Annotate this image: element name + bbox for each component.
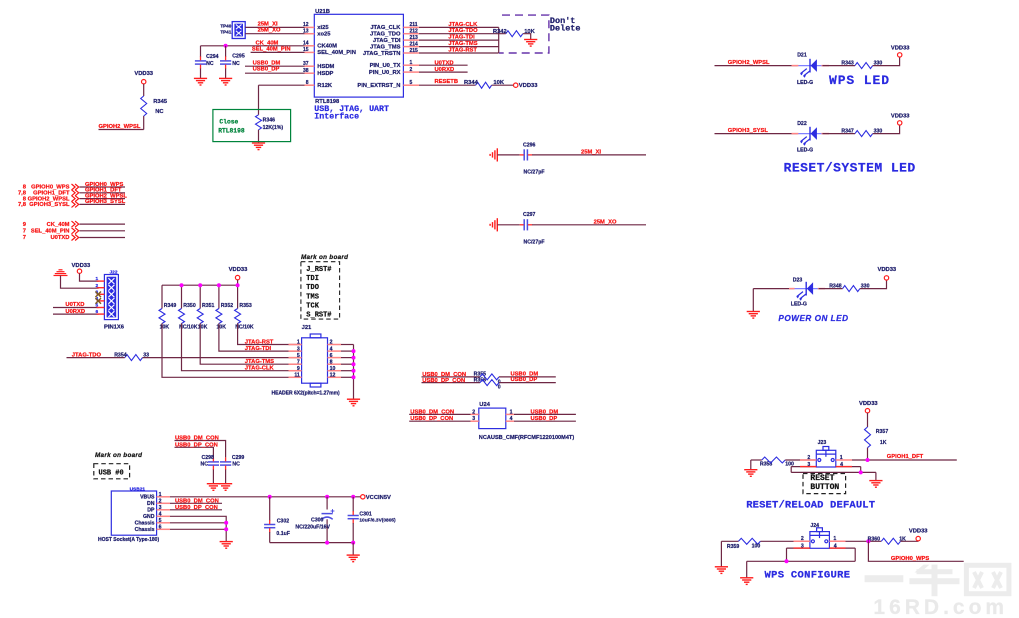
- svg-text:C297: C297: [523, 212, 536, 218]
- svg-text:1: 1: [96, 276, 99, 282]
- ground below R346: [252, 143, 265, 150]
- svg-text:U0RXD: U0RXD: [65, 309, 85, 315]
- wire JTAG-CLK: [419, 26, 499, 28]
- svg-text:VDD33: VDD33: [891, 45, 910, 51]
- svg-text:LED-G: LED-G: [797, 148, 813, 154]
- svg-text:7: 7: [297, 359, 300, 365]
- svg-text:USB0_DP: USB0_DP: [511, 377, 538, 383]
- svg-text:CK_40M: CK_40M: [47, 222, 70, 228]
- svg-text:Mark on board: Mark on board: [301, 254, 348, 261]
- wire R358 to ground: [751, 459, 762, 461]
- svg-text:VDD33: VDD33: [229, 267, 248, 273]
- svg-text:U24: U24: [479, 402, 490, 408]
- svg-text:3: 3: [297, 346, 300, 352]
- svg-text:16RD.com: 16RD.com: [873, 596, 1008, 618]
- svg-text:VBUS: VBUS: [140, 495, 155, 501]
- ground at J24 rail: [740, 578, 753, 585]
- resistor R354 33: [125, 355, 143, 361]
- svg-text:3: 3: [801, 544, 804, 550]
- svg-text:1: 1: [840, 455, 843, 461]
- svg-text:R346: R346: [263, 118, 276, 124]
- svg-text:GPIOH0_WPS: GPIOH0_WPS: [891, 556, 929, 562]
- capacitor C301 10uF: [352, 497, 354, 512]
- svg-text:2: 2: [159, 499, 162, 505]
- wire JTAG-RST: [419, 52, 499, 54]
- jtag vertical bus join: [498, 27, 500, 53]
- power VDD33 at R347: [898, 121, 902, 125]
- svg-text:5: 5: [297, 353, 300, 359]
- wire D23 to R348: [819, 288, 843, 290]
- svg-text:USB0_DM_CON: USB0_DM_CON: [175, 436, 219, 442]
- svg-text:R357: R357: [876, 429, 889, 435]
- svg-text:JTAG-TDI: JTAG-TDI: [245, 346, 272, 352]
- wire chassis pins 5 6: [170, 522, 226, 524]
- svg-text:2: 2: [807, 455, 810, 461]
- svg-text:2: 2: [96, 283, 99, 289]
- svg-text:4: 4: [510, 416, 513, 422]
- wire SEL_40M_PIN net: [251, 51, 305, 53]
- RESET BUTTON dashed box: [803, 474, 846, 494]
- svg-text:xi25: xi25: [317, 25, 329, 31]
- wire JTAG-TDI to J21 pin3: [219, 323, 302, 351]
- svg-text:10K: 10K: [160, 324, 170, 330]
- svg-text:NCAUSB_CMF(RFCMF1220100M4T): NCAUSB_CMF(RFCMF1220100M4T): [479, 435, 575, 441]
- J23 bottom pins 3 4: [791, 466, 816, 468]
- svg-text:1: 1: [159, 492, 162, 498]
- ground below R342: [524, 40, 537, 47]
- wire U0RXD: [419, 71, 468, 73]
- svg-text:9: 9: [297, 366, 300, 372]
- svg-text:7,8: 7,8: [18, 202, 27, 208]
- ground below C295: [219, 78, 232, 85]
- wire USB0_DP from U24 pin4: [514, 420, 576, 422]
- svg-text:D23: D23: [793, 277, 803, 283]
- ground below power led wire: [747, 312, 760, 319]
- wire D22 to R347: [823, 133, 856, 135]
- svg-text:U0RXD: U0RXD: [435, 67, 455, 73]
- ground below C298: [207, 484, 220, 491]
- svg-text:R349: R349: [164, 303, 177, 309]
- power VDD33 at R344: [514, 83, 518, 87]
- svg-text:R345: R345: [153, 99, 168, 105]
- wire GPIOH2_WPSL stub: [99, 129, 144, 131]
- svg-text:0: 0: [498, 385, 501, 391]
- svg-text:RESET: RESET: [810, 474, 834, 483]
- svg-text:xo25: xo25: [317, 32, 331, 38]
- ground left of C297: [490, 218, 497, 231]
- wire pin8 R12K to R346: [259, 84, 305, 86]
- svg-text:R342: R342: [493, 29, 507, 35]
- svg-text:USB0_DM: USB0_DM: [253, 60, 281, 66]
- wire R359 to J24 pin2: [760, 540, 810, 542]
- J24 bottom pins 3 4: [787, 547, 810, 549]
- svg-text:JTAG-CLK: JTAG-CLK: [448, 22, 478, 28]
- ground below C294: [194, 78, 207, 85]
- svg-text:NC/27pF: NC/27pF: [524, 239, 545, 245]
- resistor R346 12K: [256, 115, 262, 130]
- IC U21B RTL8198 box: [314, 14, 403, 97]
- wire GPIOH2_WPSL to D21: [715, 65, 798, 67]
- J21 left pin stubs: [289, 344, 302, 346]
- svg-text:JTAG-TDO: JTAG-TDO: [72, 353, 102, 359]
- svg-text:RTL8198: RTL8198: [218, 127, 245, 134]
- svg-text:VDD33: VDD33: [859, 401, 878, 407]
- U24 right pins 1 4: [506, 413, 514, 415]
- svg-text:VDD33: VDD33: [909, 529, 928, 535]
- svg-text:NC: NC: [232, 61, 240, 67]
- svg-text:211: 211: [410, 22, 418, 28]
- svg-text:R343: R343: [841, 61, 854, 67]
- svg-text:PIN_EXTRST_N: PIN_EXTRST_N: [357, 83, 400, 89]
- svg-text:8: 8: [306, 80, 309, 86]
- svg-text:R344: R344: [464, 80, 479, 86]
- svg-text:SEL_40M_PIN: SEL_40M_PIN: [31, 229, 70, 235]
- svg-text:JTAG-TDI: JTAG-TDI: [448, 35, 475, 41]
- svg-text:R359: R359: [727, 544, 740, 550]
- wire ground to D23: [753, 288, 793, 290]
- svg-text:USB0_DP: USB0_DP: [253, 67, 280, 73]
- wire GPIOH0_WPS: [868, 541, 963, 561]
- svg-text:VCCIN5V: VCCIN5V: [366, 495, 391, 501]
- svg-text:U0TXD: U0TXD: [50, 235, 69, 241]
- wire JTAG-TMS to J21 pin7: [200, 323, 301, 364]
- svg-text:25M_XO: 25M_XO: [258, 27, 281, 33]
- wire R343 to VDD33: [873, 57, 900, 66]
- svg-text:GND: GND: [143, 514, 155, 520]
- svg-text:4: 4: [834, 544, 837, 550]
- svg-text:R347: R347: [841, 129, 854, 135]
- svg-text:12: 12: [330, 373, 336, 379]
- svg-text:USB0_DM: USB0_DM: [531, 409, 559, 415]
- svg-text:C294: C294: [206, 54, 219, 60]
- wire USB0_DP_CON to R356: [422, 382, 481, 384]
- svg-text:5: 5: [159, 518, 162, 524]
- svg-text:GPIOH3_SYSL: GPIOH3_SYSL: [85, 199, 126, 205]
- svg-text:U0TXD: U0TXD: [435, 61, 454, 67]
- svg-text:JTAG_TDI: JTAG_TDI: [373, 38, 401, 44]
- wire VBUS to VCCIN5V: [170, 496, 361, 498]
- svg-text:NC/220uF/16V: NC/220uF/16V: [295, 524, 330, 530]
- wire USB0_DM_CON to C299: [175, 441, 226, 458]
- svg-text:2: 2: [330, 340, 333, 346]
- svg-text:RESET/SYSTEM LED: RESET/SYSTEM LED: [784, 161, 916, 176]
- svg-text:213: 213: [410, 35, 419, 41]
- svg-text:GPIOH2_WPSL: GPIOH2_WPSL: [99, 124, 141, 130]
- ground at J23 rail: [869, 481, 882, 488]
- ground below J21: [347, 399, 360, 406]
- wire U0TXD to J22 pin5: [53, 307, 99, 309]
- capacitor C299 NC: [220, 462, 231, 465]
- svg-text:TP40: TP40: [220, 24, 231, 29]
- svg-text:R12K: R12K: [317, 83, 333, 89]
- svg-text:LED-G: LED-G: [791, 302, 807, 308]
- J21 right pin stubs: [328, 344, 342, 346]
- green Close RTL8198 box: [213, 110, 291, 142]
- svg-text:C299: C299: [232, 455, 245, 461]
- svg-text:JTAG-RST: JTAG-RST: [245, 339, 274, 345]
- U24 left pins 2 3: [471, 413, 479, 415]
- X marks on J22 pins 3 4: [95, 292, 101, 298]
- svg-text:D21: D21: [797, 53, 807, 59]
- svg-text:JTAG_CLK: JTAG_CLK: [370, 25, 401, 31]
- svg-text:GPIOH1_DFT: GPIOH1_DFT: [887, 454, 924, 460]
- svg-text:SEL_40M_PIN: SEL_40M_PIN: [317, 50, 356, 56]
- ground at J22: [54, 270, 68, 276]
- svg-text:CK40M: CK40M: [317, 44, 337, 50]
- svg-text:USB0_DP_CON: USB0_DP_CON: [422, 378, 465, 384]
- svg-text:PIN1X6: PIN1X6: [104, 325, 125, 331]
- wire GND pin4 to ground: [170, 516, 226, 541]
- wire J24 to R360: [846, 540, 882, 542]
- svg-text:VDD33: VDD33: [72, 263, 91, 269]
- ground left of C296: [490, 148, 497, 161]
- wire JTAG-CLK to J21 pin9: [182, 323, 302, 370]
- svg-text:6: 6: [330, 353, 333, 359]
- svg-text:RESET/RELOAD DEFAULT: RESET/RELOAD DEFAULT: [746, 500, 875, 512]
- bottom rail of filter caps: [270, 542, 354, 544]
- svg-text:Mark on board: Mark on board: [95, 452, 142, 459]
- wire J24 bottom rail: [786, 548, 788, 561]
- svg-text:3: 3: [807, 462, 810, 468]
- svg-text:100: 100: [752, 544, 761, 550]
- ground below USB21: [220, 542, 233, 549]
- ground below R359: [715, 567, 728, 574]
- svg-text:GPIOH3_SYSL: GPIOH3_SYSL: [29, 202, 70, 208]
- svg-text:R350: R350: [183, 303, 196, 309]
- wire USB0_DP_CON to U24 pin3: [409, 420, 470, 422]
- wire USB0_DM_CON from pin2: [170, 502, 222, 504]
- resistor R352 10K: [218, 285, 220, 308]
- wire VDD33 to J22 pin1: [80, 273, 99, 281]
- svg-text:VDD33: VDD33: [519, 83, 538, 89]
- svg-text:TP41: TP41: [220, 30, 231, 35]
- wire USB0_DM from U24 pin1: [514, 413, 576, 415]
- wire J23 bottom rail to ground: [790, 467, 792, 473]
- svg-text:HEADER 6X2(pitch=1.27mm): HEADER 6X2(pitch=1.27mm): [272, 390, 341, 396]
- svg-text:SEL_40M_PIN: SEL_40M_PIN: [252, 47, 291, 53]
- svg-text:214: 214: [410, 41, 419, 47]
- capacitor C295 NC: [225, 46, 227, 57]
- svg-text:PIN_U0_RX: PIN_U0_RX: [369, 70, 401, 76]
- wire GPIOH3_SYSL to D22: [715, 133, 798, 135]
- wire CK_40M net: [201, 45, 305, 47]
- svg-text:C298: C298: [202, 455, 215, 461]
- wire R358 to J23 pin2: [785, 459, 816, 461]
- svg-text:R348: R348: [829, 283, 842, 289]
- U21B left pins 12 13 14 15 37 38 8: [305, 26, 315, 28]
- svg-text:0.1uF: 0.1uF: [276, 531, 290, 537]
- ground below R358: [744, 470, 757, 477]
- svg-text:PIN_U0_TX: PIN_U0_TX: [370, 63, 401, 69]
- svg-text:Close: Close: [219, 118, 238, 125]
- resistor R353 NC/10K: [237, 285, 239, 308]
- svg-text:R351: R351: [202, 303, 215, 309]
- ground below C299: [219, 484, 232, 491]
- svg-text:JTAG-CLK: JTAG-CLK: [245, 366, 275, 372]
- wire R347 to VDD33: [873, 125, 900, 134]
- svg-text:2: 2: [801, 536, 804, 542]
- svg-text:TMS: TMS: [306, 293, 319, 301]
- wire U0RXD to J22 pin6: [53, 313, 99, 315]
- svg-text:R354: R354: [114, 353, 127, 359]
- capacitor C296 NC/27pF: [497, 154, 519, 156]
- svg-text:USB0_DP_CON: USB0_DP_CON: [175, 505, 218, 511]
- svg-text:NC: NC: [155, 109, 164, 115]
- svg-text:C295: C295: [232, 54, 245, 60]
- wire USB0_DP_CON from pin3: [170, 509, 222, 511]
- svg-text:8: 8: [330, 359, 333, 365]
- ground below filter caps: [347, 555, 360, 562]
- wire GPIOH1_DFT: [852, 459, 957, 461]
- svg-text:Chassis: Chassis: [135, 527, 155, 533]
- svg-text:2: 2: [472, 409, 475, 415]
- svg-text:C296: C296: [523, 142, 536, 148]
- svg-text:1: 1: [510, 409, 513, 415]
- J22 pin stubs and numbers: [97, 280, 105, 282]
- wire JTAG-TDI: [419, 39, 499, 41]
- svg-text:12K(1%): 12K(1%): [263, 125, 284, 131]
- svg-text:JTAG_TMS: JTAG_TMS: [370, 44, 401, 50]
- svg-text:NC: NC: [206, 61, 214, 67]
- svg-text:S_RST#: S_RST#: [306, 312, 331, 320]
- svg-text:1: 1: [410, 60, 413, 66]
- wire RESETB: [419, 84, 476, 86]
- capacitor C300 NC/220uF/16V polarized: [326, 497, 328, 510]
- svg-text:VDD33: VDD33: [891, 113, 910, 119]
- resistor R342 10K: [506, 31, 523, 37]
- testpoint block TP40 TP41: [232, 22, 245, 39]
- wire R349 to J21 pin11: [162, 323, 302, 377]
- svg-text:C302: C302: [277, 519, 290, 525]
- svg-text:3: 3: [159, 505, 162, 511]
- svg-text:JTAG-TMS: JTAG-TMS: [245, 359, 274, 365]
- svg-text:J_RST#: J_RST#: [306, 266, 331, 274]
- svg-text:USB0_DM_CON: USB0_DM_CON: [410, 409, 454, 415]
- wire R360 to VDD33: [901, 540, 918, 543]
- svg-text:10uF/6.3V(0805): 10uF/6.3V(0805): [359, 518, 396, 524]
- svg-text:6: 6: [159, 525, 162, 531]
- wire JTAG-RST to J21 pin1: [238, 323, 302, 344]
- resistor R350 NC/10K: [181, 285, 183, 308]
- wire USB0_DM_CON to U24 pin2: [409, 413, 470, 415]
- svg-text:Delete: Delete: [550, 23, 581, 33]
- pullup bus wire: [162, 284, 238, 286]
- svg-text:BUTTON: BUTTON: [810, 483, 839, 492]
- svg-text:10K: 10K: [198, 324, 208, 330]
- junction C295 tap: [224, 44, 228, 48]
- resistor R351 10K: [199, 285, 201, 308]
- svg-text:TDO: TDO: [306, 284, 319, 292]
- power VCCIN5V terminal: [361, 495, 365, 499]
- wire D21 to R343: [823, 65, 856, 67]
- capacitor C297 NC/27pF: [497, 224, 519, 226]
- capacitor C298 NC: [208, 462, 219, 465]
- power VDD33 at R348: [884, 276, 888, 280]
- svg-text:U21B: U21B: [315, 9, 330, 15]
- power VDD33 at R360: [916, 536, 920, 540]
- svg-text:212: 212: [410, 29, 419, 35]
- wire ground to J22 pin2: [61, 276, 99, 289]
- svg-text:RTL8198: RTL8198: [315, 99, 340, 105]
- svg-text:GPIOH2_WPSL: GPIOH2_WPSL: [728, 60, 770, 66]
- svg-text:10K: 10K: [217, 324, 227, 330]
- capacitor C302 0.1uF: [269, 497, 271, 521]
- svg-text:1: 1: [297, 340, 300, 346]
- svg-text:HSDM: HSDM: [317, 64, 334, 70]
- svg-text:10: 10: [330, 366, 336, 372]
- svg-text:J23: J23: [818, 440, 827, 446]
- resistor R344 10K: [476, 82, 492, 88]
- svg-text:USB0_DP: USB0_DP: [531, 416, 558, 422]
- svg-text:D22: D22: [797, 121, 807, 127]
- svg-text:HOST Socket(A Type-180): HOST Socket(A Type-180): [98, 537, 159, 543]
- resistor R357 1K vertical: [867, 413, 869, 427]
- wire USB0_DP_CON to C298: [175, 447, 214, 457]
- wire 25M_XO TP41 to pin13: [245, 33, 304, 35]
- svg-text:C300: C300: [311, 518, 324, 524]
- svg-text:R360: R360: [868, 536, 881, 542]
- svg-text:USB0_DP_CON: USB0_DP_CON: [175, 442, 218, 448]
- svg-text:U0TXD: U0TXD: [65, 302, 84, 308]
- svg-text:CK_40M: CK_40M: [256, 40, 279, 46]
- wire R359 to ground: [721, 540, 738, 542]
- svg-text:7: 7: [23, 235, 26, 241]
- svg-text:POWER ON LED: POWER ON LED: [778, 314, 848, 323]
- wire 25M_XI TP40 to pin12: [245, 26, 304, 28]
- svg-text:JTAG-TMS: JTAG-TMS: [448, 41, 477, 47]
- capacitor C294 NC: [200, 46, 202, 57]
- svg-text:VDD33: VDD33: [134, 71, 153, 77]
- svg-text:VDD33: VDD33: [877, 267, 896, 273]
- USB #0 dashed box: [94, 464, 130, 479]
- svg-text:USB #0: USB #0: [99, 469, 124, 477]
- junction dots on pullup bus: [180, 283, 184, 287]
- svg-text:TCK: TCK: [306, 302, 319, 310]
- wire USB0_DM to HSDM: [245, 65, 305, 67]
- power VDD33 at R343: [898, 53, 902, 57]
- wire U0TXD: [419, 64, 468, 66]
- resistor R345 NC: [143, 84, 145, 96]
- svg-text:NC: NC: [232, 462, 240, 468]
- Don't Delete dashed box: [499, 15, 549, 53]
- svg-text:5: 5: [410, 80, 413, 86]
- svg-text:HSDP: HSDP: [317, 71, 333, 77]
- wire USB0_DM_CON to R355: [422, 376, 481, 378]
- svg-text:TDI: TDI: [306, 275, 319, 283]
- svg-text:JTAG_TRSTN: JTAG_TRSTN: [363, 51, 401, 57]
- wire JTAG-TMS: [419, 46, 499, 48]
- svg-text:RESETB: RESETB: [435, 79, 459, 85]
- svg-text:WPS LED: WPS LED: [829, 73, 890, 88]
- svg-text:JTAG-TDO: JTAG-TDO: [448, 28, 478, 34]
- svg-text:1K: 1K: [880, 440, 887, 446]
- svg-text:6: 6: [96, 309, 99, 315]
- svg-text:Chassis: Chassis: [135, 521, 155, 527]
- svg-text:2: 2: [410, 67, 413, 73]
- wire JTAG-TDO: [419, 33, 506, 35]
- svg-text:GPIOH3_SYSL: GPIOH3_SYSL: [728, 128, 769, 134]
- watermark yi niu wang: [865, 565, 960, 597]
- svg-text:1: 1: [833, 536, 836, 542]
- svg-text:4: 4: [330, 346, 333, 352]
- svg-text:25M_XI: 25M_XI: [581, 150, 601, 156]
- svg-text:215: 215: [410, 48, 419, 54]
- svg-text:DN: DN: [147, 501, 155, 507]
- wire JTAG-TDO R354 to J21 pin5: [67, 357, 125, 359]
- svg-text:USB0_DP_CON: USB0_DP_CON: [410, 416, 453, 422]
- svg-text:Interface: Interface: [314, 112, 359, 122]
- svg-text:NC/27pF: NC/27pF: [524, 169, 545, 175]
